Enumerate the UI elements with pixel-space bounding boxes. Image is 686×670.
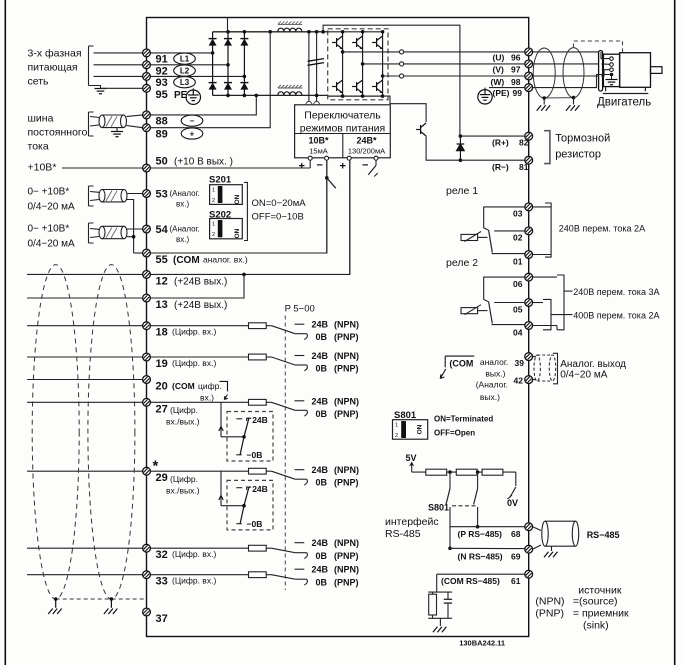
wire digital input 32 bbox=[27, 547, 143, 549]
svg-text:RS-485: RS-485 bbox=[385, 528, 421, 540]
wire digital input 19 bbox=[27, 356, 143, 358]
svg-text:81: 81 bbox=[519, 162, 529, 172]
svg-text:0В: 0В bbox=[316, 578, 328, 588]
label L2 bbox=[174, 65, 196, 76]
svg-text:53: 53 bbox=[156, 189, 168, 201]
diode D2 lower bbox=[224, 83, 232, 90]
svg-text:92: 92 bbox=[156, 65, 168, 77]
terminal 69 bbox=[525, 545, 533, 553]
wire output V bbox=[363, 63, 400, 65]
svg-text:240В перем. тока 3А: 240В перем. тока 3А bbox=[573, 287, 659, 297]
pin 10V minus bbox=[325, 156, 329, 160]
svg-text:(V): (V) bbox=[493, 65, 505, 75]
motor internal ground bbox=[611, 75, 613, 80]
inductor DC+ bbox=[278, 28, 302, 31]
motor body bbox=[620, 53, 651, 88]
terminal 27 bbox=[143, 398, 151, 406]
cable shield analog 1 bbox=[99, 190, 127, 202]
wire 50 to 10V plus bbox=[150, 167, 310, 169]
svg-text:вых.): вых.) bbox=[485, 369, 505, 379]
svg-text:95: 95 bbox=[156, 89, 168, 101]
dashed option box 29 bbox=[227, 480, 273, 530]
svg-text:(PNP): (PNP) bbox=[334, 578, 359, 588]
svg-text:(P RS−485): (P RS−485) bbox=[458, 529, 503, 539]
terminal 55 bbox=[143, 249, 151, 257]
svg-text:=(source): =(source) bbox=[573, 596, 618, 608]
resistor input 27 bbox=[249, 399, 267, 405]
svg-text:вх.): вх.) bbox=[176, 235, 189, 244]
terminal 37 bbox=[143, 608, 151, 616]
svg-text:96: 96 bbox=[511, 53, 521, 63]
svg-text:(NPN): (NPN) bbox=[334, 351, 359, 361]
wire 88 bbox=[127, 115, 143, 117]
svg-text:(Цифр.: (Цифр. bbox=[170, 474, 198, 484]
svg-text:вх.): вх.) bbox=[176, 200, 189, 209]
wire 93 to bridge bbox=[150, 75, 244, 77]
terminal 04 bbox=[525, 322, 533, 330]
svg-text:24В: 24В bbox=[312, 565, 329, 575]
wire DC+ to switch box bbox=[308, 32, 310, 102]
svg-text:55: 55 bbox=[156, 254, 168, 266]
svg-text:02: 02 bbox=[513, 233, 523, 243]
svg-text:0В: 0В bbox=[316, 409, 328, 419]
svg-text:(U): (U) bbox=[493, 53, 505, 63]
svg-text:−0В: −0В bbox=[247, 519, 263, 529]
junction shield bbox=[132, 235, 136, 239]
inverter leg 2 bbox=[362, 32, 364, 96]
PE symbol left bbox=[186, 90, 200, 104]
inductor DC- bbox=[278, 92, 302, 95]
svg-text:(PE): (PE) bbox=[493, 88, 510, 98]
svg-text:130/200мА: 130/200мА bbox=[348, 147, 385, 156]
termination switch P bbox=[449, 472, 451, 488]
switch NPN/PNP 19 bbox=[272, 357, 296, 365]
screen dashed path to motor bbox=[574, 41, 623, 53]
relay 1 blade bbox=[484, 228, 489, 230]
svg-text:33: 33 bbox=[156, 576, 168, 588]
svg-text:(sink): (sink) bbox=[583, 620, 609, 632]
brake DC+ takeoff bbox=[323, 25, 460, 136]
svg-text:12: 12 bbox=[156, 276, 168, 288]
svg-text:24В: 24В bbox=[312, 351, 329, 361]
wire 29 to internal switch bbox=[220, 471, 222, 506]
screen junction 1 bbox=[54, 597, 58, 601]
relay 2 coil bbox=[461, 308, 478, 314]
svg-text:400В перем. тока 2А: 400В перем. тока 2А bbox=[573, 311, 659, 321]
svg-text:(+24В вых.): (+24В вых.) bbox=[174, 277, 227, 288]
terminal 68 bbox=[525, 523, 533, 531]
node L2 input bbox=[226, 63, 230, 67]
svg-text:(NPN): (NPN) bbox=[334, 565, 359, 575]
svg-text:82: 82 bbox=[519, 138, 529, 148]
svg-text:03: 03 bbox=[513, 209, 523, 219]
svg-text:(PNP): (PNP) bbox=[334, 409, 359, 419]
svg-text:0− +10В*: 0− +10В* bbox=[28, 187, 70, 198]
terminal 05 bbox=[525, 299, 533, 307]
svg-text:L3: L3 bbox=[180, 78, 190, 87]
diode D2 upper bbox=[224, 39, 232, 46]
motor terminal box bbox=[603, 54, 619, 86]
DC- bus bbox=[213, 94, 328, 96]
label L1 bbox=[174, 53, 196, 64]
diode D1 lower bbox=[209, 83, 217, 90]
termination switch N bbox=[477, 472, 479, 488]
relay 2 blade bbox=[484, 300, 489, 302]
terminal 88 bbox=[143, 111, 151, 119]
brake emitter wire bbox=[426, 136, 460, 160]
inverter leg 1 bbox=[342, 32, 344, 96]
svg-text:91: 91 bbox=[156, 54, 168, 66]
box entry bumps bbox=[306, 101, 320, 104]
svg-text:(NPN): (NPN) bbox=[334, 320, 359, 330]
relay 1 common wire bbox=[494, 230, 525, 232]
wire L2 bbox=[94, 64, 143, 66]
node rail 1 bbox=[448, 470, 452, 474]
RS-485 external cable bbox=[533, 527, 541, 531]
terminal 12 bbox=[143, 271, 151, 279]
svg-text:вх.): вх.) bbox=[200, 393, 214, 403]
5V arrow bbox=[411, 464, 413, 473]
relay 1 coil bbox=[461, 234, 478, 240]
ground RC bbox=[439, 618, 441, 626]
motor terminal 2 bbox=[610, 63, 614, 67]
svg-text:(W): (W) bbox=[491, 77, 505, 87]
inverter leg 3 bbox=[382, 32, 384, 96]
svg-text:(+24В вых.): (+24В вых.) bbox=[174, 300, 227, 311]
cable shield DC bbox=[99, 115, 127, 128]
diode D3 upper bbox=[240, 39, 248, 46]
switch NPN/PNP 18 bbox=[272, 326, 296, 334]
wire 10V plus down bbox=[309, 160, 311, 168]
svg-text:интерфейс: интерфейс bbox=[385, 516, 439, 528]
svg-text:(Цифр. вх.): (Цифр. вх.) bbox=[172, 327, 216, 337]
svg-text:ON: ON bbox=[234, 228, 241, 238]
relay 1 contact NO wire bbox=[484, 207, 525, 228]
terminal 95 PE bbox=[143, 84, 151, 92]
svg-text:01: 01 bbox=[513, 256, 523, 266]
node R+ bbox=[459, 134, 463, 138]
svg-text:OFF=Open: OFF=Open bbox=[434, 429, 475, 438]
wire 24V plus down bbox=[349, 160, 351, 274]
arrow common digital bbox=[220, 381, 228, 399]
bracket analog 1 bbox=[89, 186, 94, 206]
motor terminal 1 bbox=[610, 57, 614, 61]
svg-text:0/4−20 мА: 0/4−20 мА bbox=[28, 239, 76, 250]
wire 10V minus down bbox=[326, 160, 328, 253]
svg-text:−: − bbox=[362, 160, 368, 172]
motor cable wires bbox=[533, 51, 601, 53]
svg-text:0− +10В*: 0− +10В* bbox=[28, 224, 70, 235]
resistor R2 rail bbox=[456, 469, 477, 475]
wire 89 bbox=[127, 126, 143, 128]
IGBT upper 2 bbox=[352, 36, 363, 49]
wire 04 extension bbox=[533, 325, 557, 327]
bridge leg 3 bbox=[243, 32, 245, 96]
svg-text:−0В: −0В bbox=[247, 450, 263, 460]
svg-text:10В*: 10В* bbox=[308, 136, 329, 146]
svg-text:аналог.: аналог. bbox=[480, 357, 508, 367]
node on wire 69 bbox=[448, 547, 452, 551]
pin 24V plus bbox=[347, 156, 351, 160]
ground screen 2 bbox=[110, 599, 112, 608]
svg-text:13: 13 bbox=[156, 299, 168, 311]
relay 2 NC wire bbox=[492, 324, 525, 326]
wire R+ bbox=[460, 135, 524, 137]
svg-text:42: 42 bbox=[514, 375, 524, 385]
wire 12 to switch box bbox=[150, 161, 349, 274]
wire 88 to DC- bus bbox=[150, 95, 256, 115]
resistor R1 rail bbox=[426, 469, 447, 475]
wire 53 shield to common bbox=[127, 200, 134, 254]
motor terminal plate bbox=[599, 51, 603, 92]
terminal 18 bbox=[143, 322, 151, 330]
label minus bbox=[181, 115, 203, 126]
svg-text:(PNP): (PNP) bbox=[334, 551, 359, 561]
svg-text:97: 97 bbox=[511, 65, 521, 75]
terminal 19 bbox=[143, 353, 151, 361]
svg-text:24В: 24В bbox=[312, 320, 329, 330]
wire 54 bbox=[127, 228, 143, 230]
svg-text:20: 20 bbox=[156, 381, 168, 393]
node rail 2 bbox=[476, 470, 480, 474]
wire into motor PE bbox=[594, 75, 610, 88]
IGBT upper 3 bbox=[372, 36, 383, 49]
motor terminal PE bbox=[610, 73, 614, 77]
screen bond wire bbox=[544, 97, 573, 99]
wire 69 bbox=[450, 547, 525, 549]
inverter dashed box bbox=[328, 29, 388, 100]
terminal 42 bbox=[525, 376, 533, 384]
svg-text:вх./вых.): вх./вых.) bbox=[166, 417, 200, 427]
PE symbol output bbox=[478, 90, 492, 104]
IGBT upper 1 bbox=[332, 36, 343, 49]
svg-text:(NPN): (NPN) bbox=[535, 596, 564, 608]
svg-text:(Цифр.: (Цифр. bbox=[170, 405, 198, 415]
svg-text:1: 1 bbox=[212, 188, 215, 194]
wire 55 to switch box bbox=[150, 161, 326, 253]
switch on common bbox=[325, 176, 329, 180]
wire 12 bbox=[27, 273, 143, 275]
bracket mains bbox=[89, 46, 94, 86]
svg-text:+: + bbox=[340, 161, 346, 173]
wire 92 to bridge bbox=[150, 64, 228, 66]
svg-text:24В: 24В bbox=[252, 484, 268, 494]
svg-text:вых.): вых.) bbox=[480, 392, 500, 402]
switch 24V/0V option 29 bbox=[242, 504, 246, 508]
svg-text:OFF=0−10В: OFF=0−10В bbox=[252, 212, 304, 223]
svg-text:резистор: резистор bbox=[555, 149, 601, 161]
svg-text:шина: шина bbox=[28, 113, 54, 125]
svg-text:Двигатель: Двигатель bbox=[597, 97, 651, 109]
terminal 99 bbox=[525, 84, 533, 92]
switch NPN/PNP 32 bbox=[272, 548, 296, 553]
svg-text:PE: PE bbox=[174, 90, 188, 101]
svg-text:93: 93 bbox=[156, 77, 168, 89]
node 88 junction bbox=[254, 94, 258, 98]
bracket analog out bbox=[553, 353, 558, 384]
svg-text:27: 27 bbox=[156, 403, 168, 415]
svg-text:29: 29 bbox=[156, 472, 168, 484]
svg-text:0V: 0V bbox=[507, 498, 518, 508]
relay 1 NC wire bbox=[492, 253, 525, 255]
svg-text:(NPN): (NPN) bbox=[334, 538, 359, 548]
page right border bbox=[674, 0, 676, 665]
wire 68 bbox=[450, 526, 525, 528]
terminal 01 bbox=[525, 251, 533, 259]
svg-text:0В: 0В bbox=[316, 332, 328, 342]
bridge leg 1 bbox=[212, 32, 214, 96]
motor cable screen ellipse 2 bbox=[563, 48, 584, 98]
wire into motor V bbox=[602, 63, 610, 65]
svg-text:−: − bbox=[317, 160, 323, 172]
wire output W bbox=[383, 75, 400, 77]
cable shield analog 2 bbox=[99, 226, 127, 238]
terminal 50 bbox=[143, 164, 151, 172]
svg-text:(PNP): (PNP) bbox=[535, 608, 564, 620]
screen ground 1 bbox=[542, 96, 546, 100]
svg-text:вх./вых.): вх./вых.) bbox=[166, 486, 200, 496]
svg-text:L1: L1 bbox=[180, 55, 190, 64]
svg-text:(N RS−485): (N RS−485) bbox=[458, 552, 503, 562]
svg-text:04: 04 bbox=[513, 327, 523, 337]
wire R- bbox=[460, 159, 524, 161]
wire 13 left bbox=[27, 297, 143, 299]
svg-text:24В: 24В bbox=[312, 396, 329, 406]
resistor input 33 bbox=[249, 572, 267, 578]
wire 55 common bbox=[134, 252, 143, 254]
terminal 33 bbox=[143, 571, 151, 579]
svg-text:(Цифр. вх.): (Цифр. вх.) bbox=[172, 358, 216, 368]
svg-text:L2: L2 bbox=[180, 66, 190, 75]
motor cable screen ellipse 1 bbox=[533, 48, 555, 98]
brake chopper DC- feed bbox=[383, 96, 427, 122]
svg-text:05: 05 bbox=[513, 304, 523, 314]
terminal 13 bbox=[143, 294, 151, 302]
terminal 03 bbox=[525, 203, 533, 211]
terminal 02 bbox=[525, 227, 533, 235]
svg-text:24В: 24В bbox=[312, 538, 329, 548]
brake IGBT bbox=[416, 123, 426, 136]
terminal 89 bbox=[143, 124, 151, 132]
terminal 39 bbox=[525, 353, 533, 361]
terminal 97 bbox=[525, 60, 533, 68]
frame tie to DC+ bus bbox=[227, 18, 229, 32]
IGBT lower 3 bbox=[372, 80, 383, 93]
svg-text:Аналог. выход: Аналог. выход bbox=[560, 359, 626, 370]
wire into motor W bbox=[601, 70, 610, 76]
terminal 96 bbox=[525, 48, 533, 56]
svg-text:цифр.: цифр. bbox=[198, 381, 222, 391]
svg-text:0В: 0В bbox=[316, 364, 328, 374]
terminal 54 bbox=[143, 225, 151, 233]
0V switch bbox=[515, 472, 517, 486]
phase output node 2 bbox=[361, 62, 365, 66]
wire 89 to DC+ bus bbox=[150, 32, 270, 128]
bracket S201-S202 bbox=[244, 182, 247, 240]
svg-text:(Аналог.: (Аналог. bbox=[170, 189, 200, 198]
terminal 32 bbox=[143, 544, 151, 552]
RC termination network bbox=[436, 574, 438, 592]
node top 2 bbox=[226, 30, 230, 34]
svg-text:(Цифр. вх.): (Цифр. вх.) bbox=[172, 576, 216, 586]
svg-text:+: + bbox=[299, 161, 305, 173]
svg-text:19: 19 bbox=[156, 358, 168, 370]
svg-text:130BA242.11: 130BA242.11 bbox=[459, 639, 505, 648]
svg-text:99: 99 bbox=[513, 88, 523, 98]
5V rail bbox=[412, 471, 516, 473]
svg-text:(PNP): (PNP) bbox=[334, 332, 359, 342]
S801 dashed link bbox=[452, 505, 477, 507]
relay 2 common wire bbox=[494, 302, 525, 304]
terminal 53 bbox=[143, 190, 151, 198]
svg-text:= приемник: = приемник bbox=[573, 608, 629, 620]
wire digital input 18 bbox=[27, 325, 143, 327]
svg-text:ON: ON bbox=[234, 194, 241, 204]
terminal 81 bbox=[525, 156, 533, 164]
svg-text:+10В*: +10В* bbox=[28, 162, 57, 174]
node top 3 bbox=[243, 30, 247, 34]
wire digital input 29 bbox=[27, 470, 143, 472]
node L3 input bbox=[243, 75, 247, 79]
dashed line P5-00 bbox=[284, 316, 286, 591]
wire digital input 33 bbox=[27, 574, 143, 576]
svg-text:Тормозной: Тормозной bbox=[555, 133, 610, 145]
ground mains bbox=[94, 86, 101, 89]
svg-text:RS−485: RS−485 bbox=[587, 530, 620, 540]
terminal 98 bbox=[525, 72, 533, 80]
junction 13 on 12 rail bbox=[242, 273, 246, 277]
node bottom 2 bbox=[226, 94, 230, 98]
terminal 06 bbox=[525, 273, 533, 281]
phase output node 3 bbox=[381, 74, 385, 78]
svg-text:0/4−20 мА: 0/4−20 мА bbox=[560, 370, 608, 381]
node R- bbox=[459, 158, 463, 162]
relay 2 contact NO wire bbox=[484, 277, 525, 300]
wire L3 bbox=[94, 75, 143, 77]
svg-text:61: 61 bbox=[511, 576, 521, 586]
svg-text:+: + bbox=[190, 129, 195, 138]
svg-text:1: 1 bbox=[212, 222, 215, 228]
svg-text:аналог. вх.): аналог. вх.) bbox=[203, 255, 248, 265]
bracket brake resistor bbox=[544, 131, 550, 164]
svg-text:0/4−20 мА: 0/4−20 мА bbox=[28, 202, 76, 213]
svg-text:88: 88 bbox=[156, 116, 168, 128]
wire 61 bbox=[437, 573, 525, 575]
inverter DC- rail bbox=[328, 95, 383, 97]
terminal 20 common digital bbox=[143, 376, 151, 384]
svg-text:P 5−00: P 5−00 bbox=[285, 304, 315, 315]
power mode switch box bbox=[295, 105, 391, 158]
arrow analog common bbox=[440, 356, 474, 378]
wire L1 bbox=[94, 52, 143, 54]
svg-text:3-х фазная: 3-х фазная bbox=[28, 48, 82, 60]
bracket relay 2 outer bbox=[533, 276, 557, 278]
screen junction 2 bbox=[110, 597, 114, 601]
svg-text:(R−): (R−) bbox=[492, 162, 509, 172]
svg-text:50: 50 bbox=[156, 156, 168, 168]
svg-text:0В: 0В bbox=[316, 551, 328, 561]
svg-text:2: 2 bbox=[212, 232, 215, 238]
svg-text:(R+): (R+) bbox=[492, 138, 509, 148]
resistor input 19 bbox=[249, 354, 267, 360]
svg-text:(COM: (COM bbox=[449, 359, 473, 369]
svg-text:(NPN): (NPN) bbox=[334, 465, 359, 475]
motor terminal 3 bbox=[610, 68, 614, 72]
svg-text:реле 1: реле 1 bbox=[446, 185, 478, 197]
resistor R3 rail bbox=[482, 469, 503, 475]
ground screen 1 bbox=[55, 599, 57, 608]
cable screen ellipse 1 bbox=[32, 265, 79, 599]
